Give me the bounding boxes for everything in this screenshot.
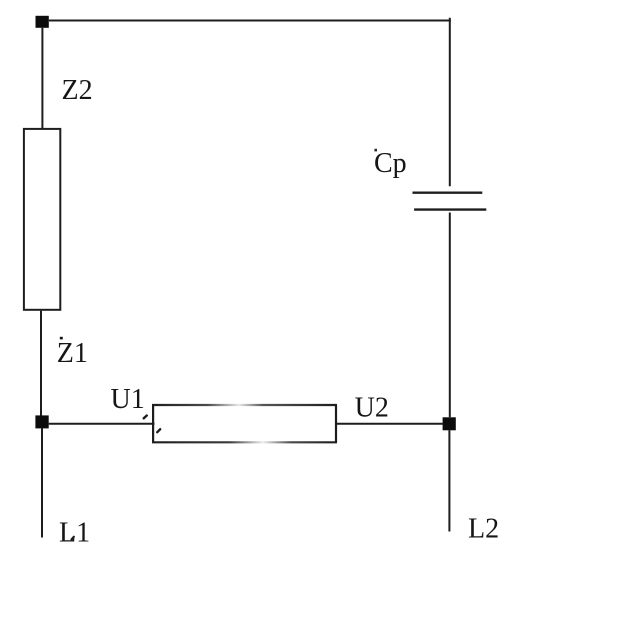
wire from Z1 bottom to left node [40, 311, 42, 416]
svg-text:Z1: Z1 [57, 338, 88, 369]
element U box top edge [152, 404, 337, 406]
element U box right side [335, 405, 337, 442]
node top-left junction [36, 16, 49, 28]
wire top horizontal [49, 20, 451, 22]
wire right vertical from top wire to capacitor [449, 18, 451, 186]
svg-text:Z2: Z2 [62, 75, 93, 106]
stray dot above C of Cp [374, 149, 377, 152]
tick mark inside element U lower-left [157, 429, 160, 432]
wire right vertical down to L2 terminal [448, 430, 450, 531]
wire from capacitor to right node [449, 213, 451, 418]
wire left vertical down to L1 terminal [41, 428, 43, 537]
element U box bottom edge [152, 441, 337, 443]
svg-text:U1: U1 [111, 384, 145, 415]
label Z1 (with dot above Z) [57, 337, 88, 369]
svg-text:U2: U2 [355, 393, 389, 424]
node left junction [35, 415, 48, 428]
tick mark upper-left of element U [144, 416, 147, 419]
wire from element U to right node [337, 423, 443, 425]
capacitor Cp top plate [413, 191, 483, 193]
stray comma mark after L1 [72, 537, 74, 540]
node right junction [443, 417, 456, 430]
svg-text:L2: L2 [468, 514, 499, 545]
capacitor Cp bottom plate [414, 208, 486, 210]
element U box (two-port impedance) left side [152, 405, 154, 442]
wire left vertical from top node to Z1 [41, 28, 43, 128]
resistor Z1 [24, 129, 60, 310]
svg-text:L1: L1 [59, 518, 90, 549]
wire from left node to element U [49, 423, 155, 425]
svg-text:Cp: Cp [374, 148, 407, 179]
